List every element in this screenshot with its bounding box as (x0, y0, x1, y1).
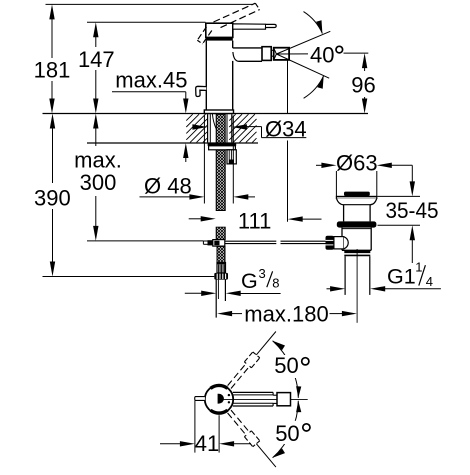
svg-text:41: 41 (195, 431, 219, 456)
svg-text:111: 111 (238, 209, 271, 234)
svg-text:40: 40 (310, 42, 334, 67)
svg-text:50: 50 (274, 353, 298, 378)
svg-text:Ø34: Ø34 (265, 117, 307, 142)
svg-text:50: 50 (275, 421, 299, 446)
svg-text:max.: max. (74, 148, 122, 173)
svg-text:4: 4 (426, 274, 433, 289)
svg-text:Ø63: Ø63 (336, 151, 378, 176)
svg-text:96: 96 (351, 73, 375, 98)
svg-text:G: G (241, 269, 258, 293)
svg-text:1: 1 (415, 259, 422, 274)
svg-text:Ø 48: Ø 48 (144, 174, 192, 199)
svg-text:181: 181 (34, 58, 71, 83)
svg-text:8: 8 (272, 276, 279, 291)
svg-text:G1: G1 (387, 264, 416, 288)
svg-text:3: 3 (259, 266, 266, 281)
svg-text:300: 300 (80, 170, 117, 195)
svg-text:35-45: 35-45 (386, 198, 439, 223)
svg-text:147: 147 (78, 47, 115, 72)
svg-text:max.180: max.180 (244, 302, 328, 327)
svg-text:max.45: max.45 (115, 68, 187, 93)
svg-text:390: 390 (34, 186, 71, 211)
